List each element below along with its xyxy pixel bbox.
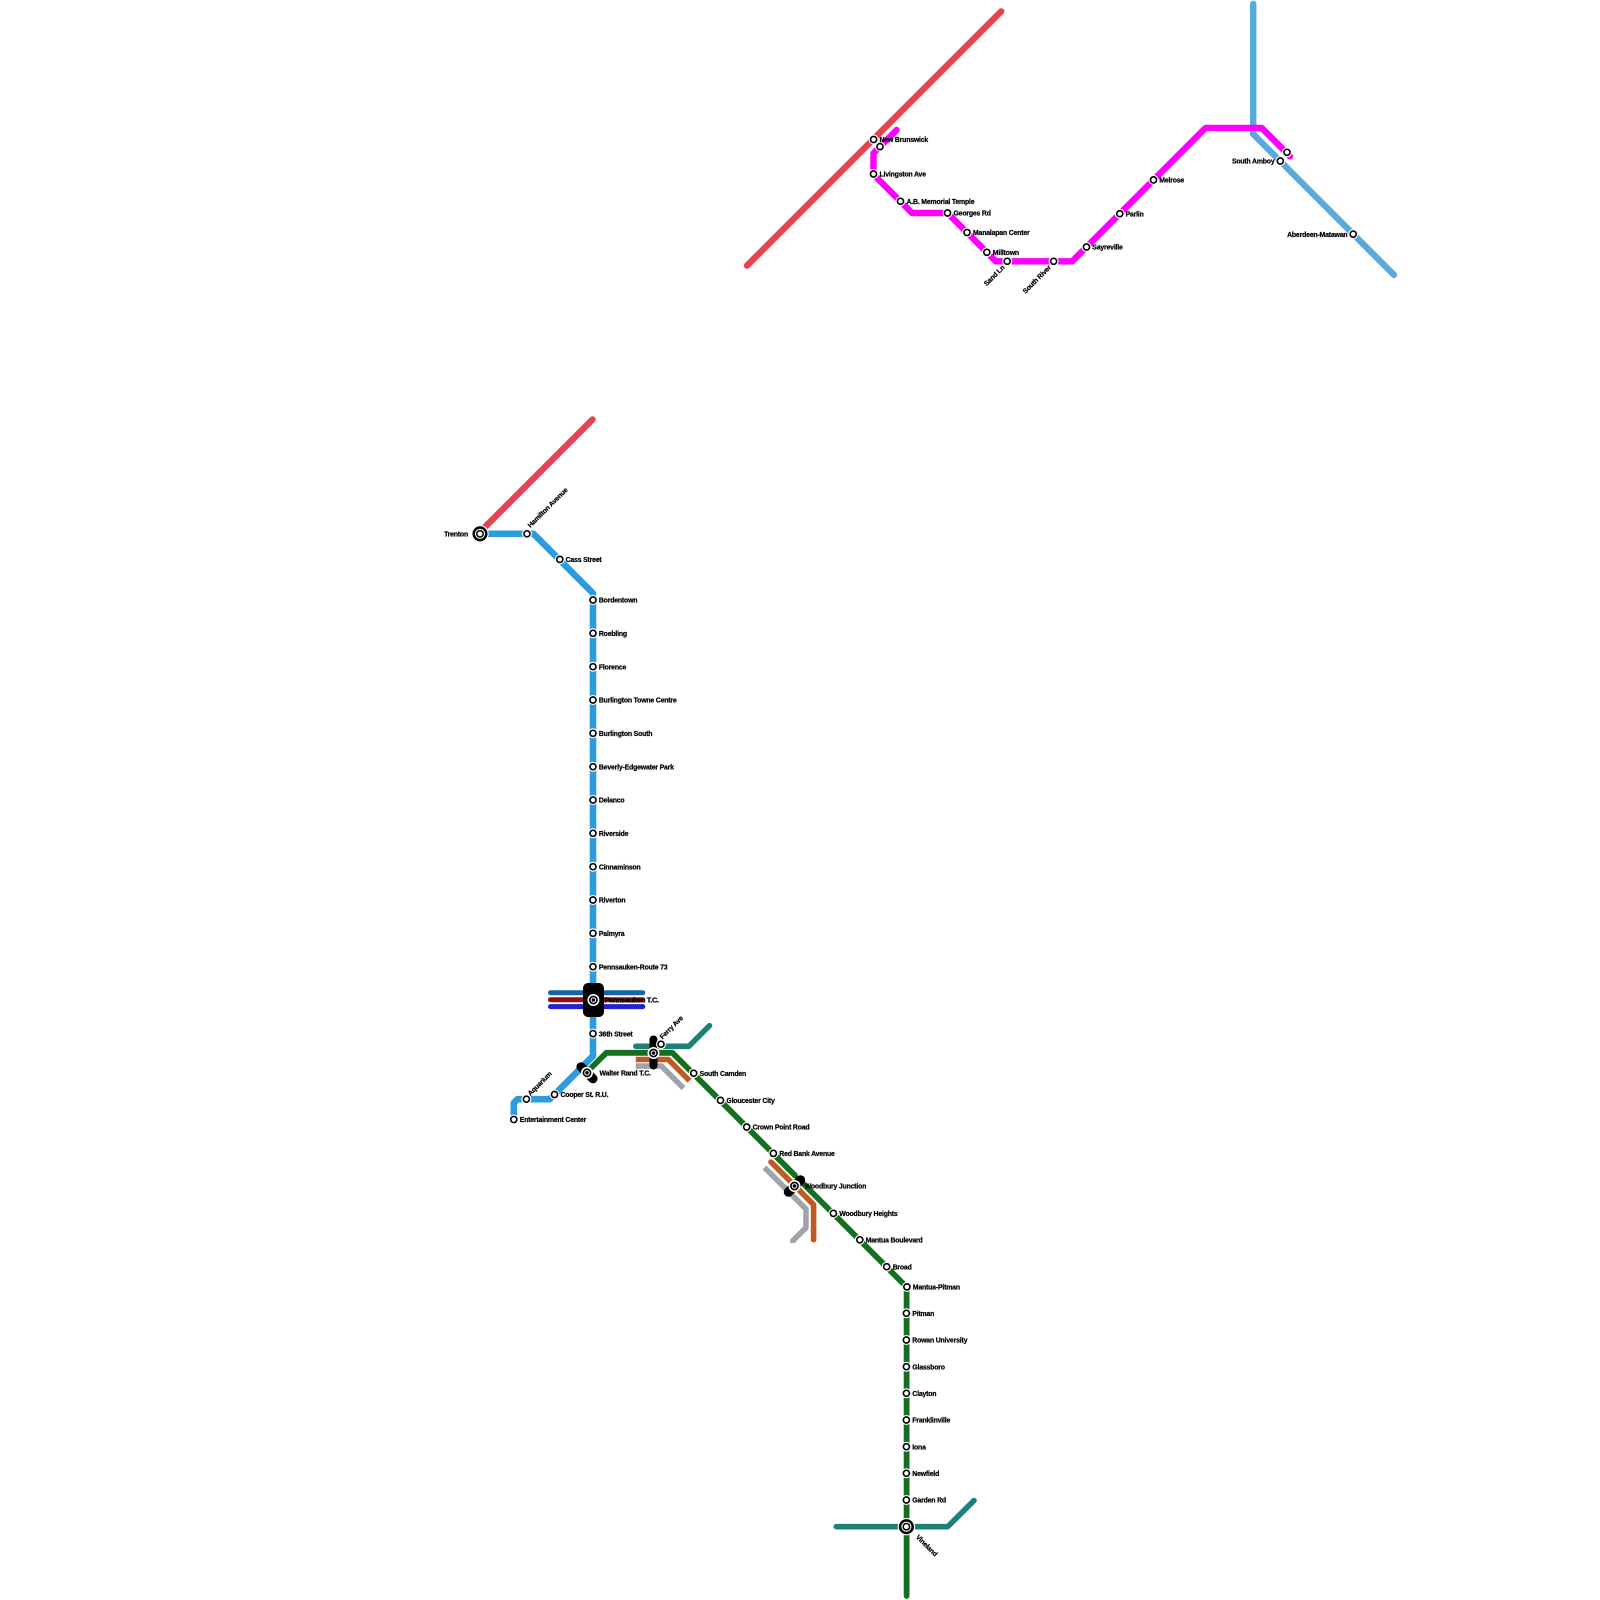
svg-text:Pennsauken-Route 73: Pennsauken-Route 73 [599,964,668,971]
node: New Brunswick magenta stop [875,142,885,152]
svg-text:A.B. Memorial Temple: A.B. Memorial Temple [907,199,975,206]
svg-text:Riverside: Riverside [599,831,629,838]
svg-text:Beverly-Edgewater Park: Beverly-Edgewater Park [599,764,674,771]
node: Pennsauken T.C. bullseye [587,994,599,1006]
wire: River Line light blue [480,534,593,1119]
svg-text:Pennsauken T.C.: Pennsauken T.C. [605,996,659,1005]
node: Ferry Ave teal stop [656,1039,666,1049]
svg-text:Iona: Iona [912,1444,926,1451]
node: Melrose station [1149,175,1159,185]
node: Parlin station [1115,209,1125,219]
node: South Amboy station [1275,156,1285,166]
wire: red line at Trenton (left) [482,420,593,531]
node: Milltown station [982,247,992,257]
svg-text:Melrose: Melrose [1159,178,1184,185]
svg-text:Burlington Towne Centre: Burlington Towne Centre [599,698,677,705]
wire: orange line segment A at Ferry Ave [636,1060,690,1081]
svg-text:Roebling: Roebling [599,631,627,638]
node: Woodbury Junction black interchange bar [789,1180,801,1192]
node: Livingston Ave station [869,169,879,179]
node: Mantua Boulevard station [855,1235,865,1245]
node: Mantua-Pitman station [902,1282,912,1292]
node: Red Bank Avenue station [768,1148,778,1158]
node: Vineland terminal bullseye [898,1518,915,1535]
node: Aberdeen-Matawan station [1348,229,1358,239]
node: Entertainment Center station [509,1115,519,1125]
svg-text:Entertainment Center: Entertainment Center [520,1117,587,1124]
svg-text:Manalapan Center: Manalapan Center [973,230,1030,237]
node: Ferry Ave bullseye [648,1047,660,1059]
svg-text:Glassboro: Glassboro [912,1364,944,1371]
svg-text:Palmyra: Palmyra [599,931,625,938]
svg-text:36th Street: 36th Street [599,1031,634,1038]
svg-text:Red Bank Avenue: Red Bank Avenue [779,1151,835,1158]
node: magenta terminus at South Amboy [1282,147,1292,157]
node: 36th Street station [588,1029,598,1039]
svg-text:Franklinville: Franklinville [912,1418,950,1425]
svg-text:Pitman: Pitman [912,1311,934,1318]
svg-text:Garden Rd: Garden Rd [912,1498,946,1505]
svg-text:Georges Rd: Georges Rd [954,211,991,218]
wire: dark red bar at Pennsauken [551,997,643,1002]
node: Bordentown station [588,595,598,605]
node: Walter Rand T.C. black interchange bar [581,1067,593,1079]
wire: orange line segment B at Woodbury Junction [771,1162,814,1240]
node: Crown Point Road station [742,1122,752,1132]
node: Walter Rand T.C. bullseye [581,1067,593,1079]
svg-text:Clayton: Clayton [912,1391,936,1398]
node: Pennsauken-Route 73 station [588,962,598,972]
node: Newfield station [901,1468,911,1478]
svg-text:Trenton: Trenton [444,532,468,539]
wire: magenta New Brunswick - South Amboy line [874,128,1291,261]
svg-text:Broad: Broad [893,1264,912,1271]
svg-text:Cooper St. R.U.: Cooper St. R.U. [561,1092,609,1099]
wire: gray line segment A at Ferry Ave [636,1066,684,1088]
svg-text:Cass Street: Cass Street [566,557,603,564]
node: Burlington South station [588,728,598,738]
node: Aquarium station [521,1094,531,1104]
node: Cinnaminson station [588,862,598,872]
wire: green Glassboro-Camden line [588,1053,907,1596]
node: Broad station [882,1262,892,1272]
svg-text:Bordentown: Bordentown [599,598,637,605]
node: Pitman station [901,1308,911,1318]
node: Franklinville station [901,1415,911,1425]
svg-text:Parlin: Parlin [1126,211,1144,218]
node: Riverton station [588,895,598,905]
node: Cass Street station [555,554,565,564]
node: Woodbury Heights station [828,1208,838,1218]
svg-text:Crown Point Road: Crown Point Road [753,1125,810,1132]
wire: teal line at Vineland [836,1501,974,1527]
node: Sand Ln station [1002,256,1012,266]
node: Ferry Ave black interchange bar [650,1040,658,1066]
wire: gray line segment B at Woodbury Junction [765,1168,807,1244]
wire: royal blue bar at Pennsauken [551,1004,643,1009]
node: Gloucester City station [716,1095,726,1105]
node: Palmyra station [588,928,598,938]
wire: Atlantic City line steel blue bar at Pennsauken [551,990,643,995]
node: Rowan University station [901,1335,911,1345]
svg-text:Aberdeen-Matawan: Aberdeen-Matawan [1287,232,1347,239]
node: Roebling station [588,628,598,638]
node: Glassboro station [901,1362,911,1372]
node: Georges Rd station [943,208,953,218]
node: Delanco station [588,795,598,805]
node: Woodbury Junction bullseye [789,1180,801,1192]
node: Cooper St R.U. station [550,1090,560,1100]
svg-text:South Camden: South Camden [700,1071,746,1078]
node: Trenton terminal bullseye [471,525,488,542]
svg-text:Sayreville: Sayreville [1092,245,1123,252]
node: South Camden station [689,1068,699,1078]
node: Burlington Towne Centre station [588,695,598,705]
svg-text:Rowan University: Rowan University [912,1338,967,1345]
svg-text:Delanco: Delanco [599,798,625,805]
svg-text:Burlington South: Burlington South [599,731,652,738]
svg-text:Florence: Florence [599,664,627,671]
node: Florence station [588,662,598,672]
wire: Northeast Corridor red line (top right) [747,11,1001,265]
node: New Brunswick station [869,135,879,145]
node: Riverside station [588,828,598,838]
svg-text:Cinnaminson: Cinnaminson [599,864,641,871]
node: A.B. Memorial Temple station [896,196,906,206]
svg-text:Livingston Ave: Livingston Ave [880,172,927,179]
node: Hamilton Avenue station [522,529,532,539]
node: Beverly-Edgewater Park station [588,762,598,772]
node: Sayreville station [1082,242,1092,252]
wire: teal line at Ferry Ave junction [636,1026,710,1047]
svg-text:Riverton: Riverton [599,898,626,905]
node: Iona station [901,1442,911,1452]
svg-text:Woodbury Heights: Woodbury Heights [839,1211,898,1218]
svg-text:Newfield: Newfield [912,1471,939,1478]
svg-text:Milltown: Milltown [993,250,1019,257]
node: Pennsauken T.C. black interchange bar [583,983,604,1017]
svg-text:Walter Rand T.C.: Walter Rand T.C. [600,1071,651,1078]
svg-text:Mantua Boulevard: Mantua Boulevard [866,1238,923,1245]
node: South River station [1049,256,1059,266]
svg-text:Gloucester City: Gloucester City [726,1098,775,1105]
svg-text:Mantua-Pitman: Mantua-Pitman [913,1285,960,1292]
svg-text:South Amboy: South Amboy [1232,159,1275,166]
node: Manalapan Center station [962,228,972,238]
node: Garden Rd station [901,1495,911,1505]
wire: North Jersey Coast Line blue [1253,4,1394,275]
node: Clayton station [901,1388,911,1398]
svg-text:Woodbury Junction: Woodbury Junction [805,1184,867,1191]
svg-text:New Brunswick: New Brunswick [880,137,929,144]
